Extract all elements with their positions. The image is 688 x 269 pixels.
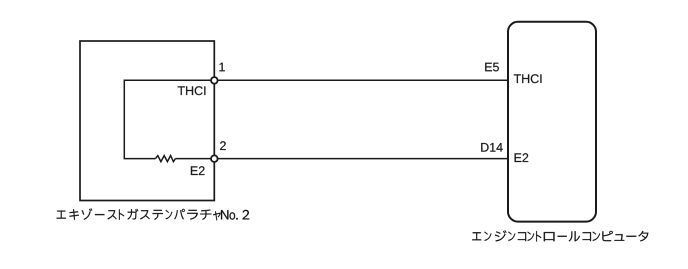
ECU box: engine control computer — [508, 22, 596, 222]
caption: engine control computer (katakana outlines) — [472, 230, 648, 241]
pin number 1 — [219, 63, 224, 72]
wire: terminal 2 to ECU pin D14 — [214, 158, 508, 160]
pin number 2 — [220, 141, 226, 150]
wire: terminal 1 to ECU pin E5 — [214, 79, 508, 81]
label E2 (sensor side) — [191, 166, 205, 175]
wire: resistor to terminal 2 — [176, 158, 215, 160]
pin E5 — [485, 63, 499, 72]
terminal 1 (open circle) — [211, 77, 218, 84]
label E2 (ECU side) — [515, 153, 529, 162]
terminal 2 (open circle) — [211, 155, 218, 162]
wire: terminal 1 to sensing loop — [124, 80, 214, 158]
label THCI (ECU side) — [514, 74, 542, 83]
component box: exhaust gas temperature sensor No.2 — [80, 41, 214, 201]
caption: exhaust gas temperature sensor No.2 (katakana outlines) — [57, 208, 250, 220]
label THCI (sensor side) — [178, 86, 206, 95]
resistor R (thermistor element) — [156, 156, 176, 162]
pin D14 — [481, 143, 503, 152]
